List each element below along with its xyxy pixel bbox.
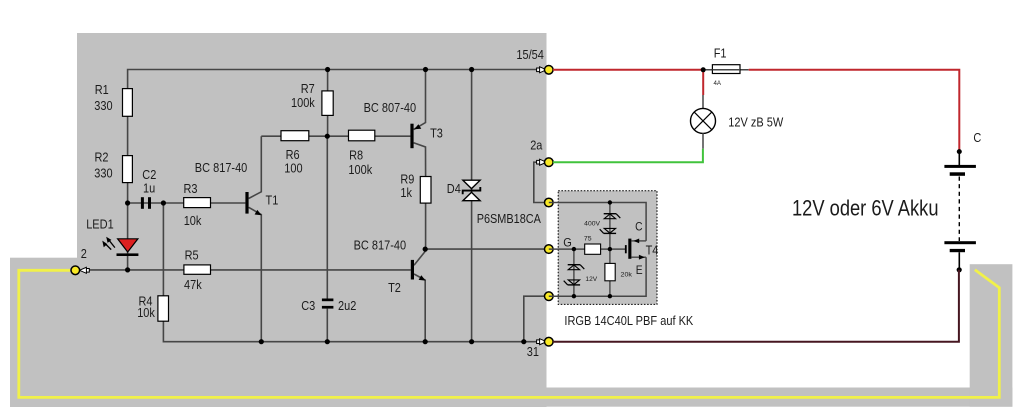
wire gate drive to terminal bbox=[425, 248, 546, 250]
junction box bottom left bbox=[572, 294, 576, 298]
junction battery minus bbox=[957, 267, 962, 272]
svg-text:4A: 4A bbox=[714, 80, 722, 87]
svg-text:C: C bbox=[973, 130, 981, 145]
wire box bottom rail to emitter bbox=[549, 257, 646, 296]
svg-text:330: 330 bbox=[94, 98, 112, 113]
svg-text:47k: 47k bbox=[184, 277, 202, 292]
svg-text:F1: F1 bbox=[714, 45, 727, 60]
terminal circle 2a bbox=[545, 158, 554, 167]
wire fuse leads bbox=[703, 69, 749, 71]
IGBT module box bbox=[558, 191, 657, 305]
capacitor C3 bbox=[322, 299, 334, 309]
resistor R7 bbox=[322, 91, 333, 116]
svg-text:20k: 20k bbox=[621, 271, 633, 278]
svg-text:10k: 10k bbox=[137, 305, 155, 320]
junction gate node R9/T2 bbox=[423, 247, 428, 252]
junction T3 emitter top bbox=[423, 67, 428, 72]
wire emitter terminal link bbox=[524, 296, 546, 342]
lamp 12V 5W bbox=[691, 108, 716, 133]
wire D4 column bbox=[471, 70, 473, 342]
svg-text:100k: 100k bbox=[291, 95, 315, 110]
wire bottom rail bbox=[163, 321, 543, 342]
resistor R2 bbox=[123, 156, 133, 183]
resistor 75 bbox=[585, 244, 601, 254]
svg-text:2a: 2a bbox=[530, 138, 543, 153]
resistor R1 bbox=[123, 89, 133, 117]
junction R7 top bbox=[325, 67, 330, 72]
svg-text:BC 817-40: BC 817-40 bbox=[195, 160, 248, 175]
IGBT T4 bbox=[625, 239, 646, 260]
svg-text:100: 100 bbox=[284, 161, 302, 176]
svg-text:R3: R3 bbox=[184, 181, 198, 196]
svg-text:R7: R7 bbox=[301, 81, 315, 96]
terminal circle 31 bbox=[545, 337, 554, 346]
svg-text:12V: 12V bbox=[585, 276, 597, 283]
junction box top rail bbox=[608, 200, 612, 204]
svg-text:R5: R5 bbox=[185, 247, 199, 262]
resistor 20k bbox=[605, 263, 615, 280]
junction battery C node bbox=[957, 149, 962, 154]
junction T1 emitter bottom bbox=[259, 339, 264, 344]
yellow wire loop bbox=[19, 270, 1000, 398]
svg-text:C3: C3 bbox=[301, 298, 315, 313]
wire C3 column bbox=[326, 136, 328, 342]
wire R9 to gate node bbox=[425, 203, 427, 249]
svg-text:1k: 1k bbox=[400, 185, 412, 200]
resistor R8 bbox=[349, 130, 375, 141]
zener pair 12V bbox=[564, 265, 585, 285]
battery cell top bbox=[944, 165, 976, 176]
wire dark red battery to 31 bbox=[553, 270, 959, 342]
wire red lamp branch bbox=[702, 70, 704, 95]
wire battery dashed middle bbox=[958, 177, 960, 242]
wire red fuse to battery top bbox=[749, 70, 960, 152]
wire 12V zener column bbox=[573, 249, 575, 296]
wire 400V zener column bbox=[609, 203, 611, 250]
junction box bottom right bbox=[608, 294, 612, 298]
terminal circle G-rail bbox=[545, 245, 554, 254]
terminal plug 31 bbox=[537, 339, 547, 345]
wire LED branch bbox=[127, 203, 129, 270]
terminal circle 15/54 bbox=[545, 66, 554, 75]
svg-text:T2: T2 bbox=[388, 280, 401, 295]
junction box gate right bbox=[608, 247, 612, 251]
svg-text:LED1: LED1 bbox=[86, 217, 114, 232]
svg-text:E: E bbox=[636, 263, 643, 277]
wire T1 emitter bbox=[249, 207, 262, 341]
resistor R9 bbox=[420, 177, 431, 204]
terminal circle node 2 bbox=[71, 266, 80, 275]
wire node2 rail to T2 base bbox=[88, 269, 411, 271]
TVS diode D4 bbox=[463, 180, 481, 201]
svg-text:C: C bbox=[635, 219, 643, 233]
gray board bottom bar bbox=[547, 388, 1013, 407]
terminal circle C-rail bbox=[545, 198, 554, 207]
svg-text:100k: 100k bbox=[348, 162, 372, 177]
svg-text:R8: R8 bbox=[349, 148, 363, 163]
junction fuse/lamp bbox=[701, 67, 706, 72]
fuse F1 bbox=[712, 65, 740, 74]
svg-text:R6: R6 bbox=[286, 147, 300, 162]
resistor R4 bbox=[158, 296, 169, 321]
wire R3 to T1 base bbox=[211, 202, 246, 204]
terminal circle E-rail bbox=[545, 292, 554, 301]
wire battery top lead bbox=[958, 152, 960, 165]
wire 20k column bbox=[609, 249, 611, 296]
junction D4 bottom bbox=[469, 339, 474, 344]
wire T3 emitter to top rail bbox=[414, 70, 426, 130]
wire battery bottom lead bbox=[958, 252, 960, 270]
transistor T1 bbox=[245, 192, 261, 215]
svg-text:2: 2 bbox=[81, 246, 87, 261]
svg-text:BC 817-40: BC 817-40 bbox=[354, 237, 407, 252]
battery cell bottom bbox=[944, 241, 976, 252]
wire T2 emitter bbox=[414, 274, 425, 342]
junction E-link bottom bbox=[521, 339, 526, 344]
wire lamp bottom lead bbox=[702, 133, 704, 149]
svg-text:R2: R2 bbox=[95, 150, 109, 165]
wire divider vertical to R4 bbox=[162, 203, 164, 296]
terminal plug 2a bbox=[537, 159, 547, 165]
gray board main block bbox=[77, 33, 547, 407]
wire mid rail R6-R8 bbox=[261, 135, 410, 137]
junction box gate left bbox=[572, 247, 576, 251]
zener pair 400V bbox=[600, 214, 621, 234]
junction T2 emitter bottom bbox=[423, 339, 428, 344]
svg-text:15/54: 15/54 bbox=[516, 47, 544, 62]
wire R7 leads bbox=[327, 70, 329, 137]
resistor R3 bbox=[184, 198, 211, 208]
svg-text:12V zB 5W: 12V zB 5W bbox=[728, 114, 784, 129]
svg-text:330: 330 bbox=[94, 166, 112, 181]
wire top rail bbox=[128, 70, 544, 89]
svg-text:T4: T4 bbox=[646, 242, 659, 257]
junction LED on node2 rail bbox=[125, 267, 130, 272]
wire C2 row bbox=[128, 202, 184, 204]
svg-text:P6SMB18CA: P6SMB18CA bbox=[477, 211, 541, 226]
wire through fuse bbox=[712, 69, 740, 71]
svg-text:R1: R1 bbox=[95, 82, 109, 97]
wire lamp top lead bbox=[702, 95, 704, 109]
svg-text:10k: 10k bbox=[184, 213, 202, 228]
wire 2a loop bbox=[534, 162, 546, 202]
svg-text:G: G bbox=[563, 236, 572, 250]
svg-text:D4: D4 bbox=[447, 181, 461, 196]
svg-text:IRGB 14C40L PBF auf KK: IRGB 14C40L PBF auf KK bbox=[564, 313, 693, 328]
capacitor C2 bbox=[141, 197, 151, 209]
wire T3 collector to R9 bbox=[414, 143, 426, 177]
transistor T3 bbox=[410, 124, 421, 149]
junction C3 bottom bbox=[325, 339, 330, 344]
wire red 15/54 to fuse junction bbox=[553, 69, 703, 71]
junction node C2/R3/R4 bbox=[161, 200, 166, 205]
svg-text:31: 31 bbox=[527, 344, 539, 359]
wire green lamp to 2a bbox=[553, 149, 703, 162]
wire T2 collector bbox=[414, 249, 425, 265]
wire box gate rail bbox=[549, 248, 626, 250]
junction D4 top bbox=[469, 67, 474, 72]
svg-text:2u2: 2u2 bbox=[338, 298, 356, 313]
transistor T2 bbox=[411, 260, 426, 281]
svg-text:75: 75 bbox=[584, 235, 592, 242]
junction node R2/C2/LED bbox=[125, 200, 130, 205]
junction R6/R7/R8 bbox=[325, 134, 330, 139]
wire T1 collector bbox=[249, 136, 262, 198]
resistor R6 bbox=[281, 131, 309, 141]
svg-text:400V: 400V bbox=[584, 220, 600, 227]
resistor R5 bbox=[184, 265, 211, 274]
LED LED1 bbox=[102, 237, 138, 256]
wire R1-R2 link bbox=[127, 116, 129, 155]
terminal plug 15/54 bbox=[537, 67, 547, 73]
svg-text:T3: T3 bbox=[430, 126, 443, 141]
svg-text:12V oder 6V Akku: 12V oder 6V Akku bbox=[792, 196, 939, 221]
terminal plug node 2 bbox=[79, 267, 89, 273]
gray board right band bbox=[970, 264, 1013, 407]
wire R2 to node bbox=[127, 183, 129, 203]
wire box top rail to collector bbox=[549, 203, 646, 241]
svg-text:T1: T1 bbox=[266, 192, 279, 207]
gray board left extension bbox=[10, 258, 77, 407]
svg-text:1u: 1u bbox=[143, 181, 155, 196]
svg-text:BC 807-40: BC 807-40 bbox=[364, 100, 417, 115]
